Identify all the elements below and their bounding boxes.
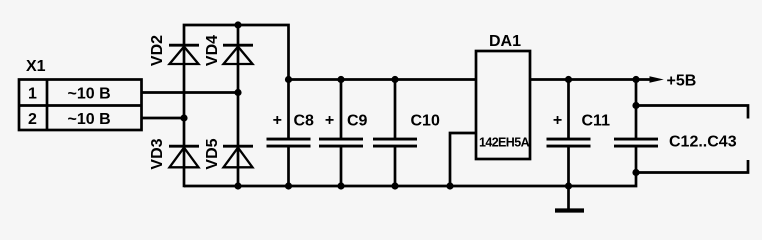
connector X1 box — [19, 80, 142, 131]
node dot main rail / C12 riser — [632, 76, 639, 83]
regulator DA1 box — [476, 51, 530, 159]
svg-text:C8: C8 — [294, 112, 315, 129]
svg-text:+: + — [325, 112, 334, 129]
wire: C12..C43 top branch with right tick — [636, 106, 748, 119]
node dot bottom rail / C9 — [337, 182, 344, 189]
wire: DA1 ground pin to bottom rail — [450, 133, 476, 186]
wire: X1 pin2 to bridge node — [142, 117, 185, 120]
capacitor C8 plates — [267, 138, 311, 148]
diode VD3 — [169, 146, 199, 167]
svg-text:X1: X1 — [26, 58, 46, 75]
svg-text:142ЕН5А: 142ЕН5А — [479, 136, 530, 150]
capacitor C10 plates — [373, 138, 417, 148]
svg-text:~10 В: ~10 В — [68, 111, 111, 128]
svg-text:C12..C43: C12..C43 — [669, 133, 737, 150]
node dot C12 bottom branch — [632, 169, 639, 176]
wire: main rail right (DA1 output to +5V arrow) — [530, 78, 652, 81]
capacitor C12 plates — [614, 138, 658, 148]
svg-text:~10 В: ~10 В — [68, 86, 111, 103]
capacitor C9 plates — [319, 138, 363, 148]
node dot main rail / C11 — [565, 76, 572, 83]
svg-text:DA1: DA1 — [489, 33, 521, 50]
svg-text:VD4: VD4 — [204, 35, 221, 66]
svg-text:+: + — [273, 112, 282, 129]
diode VD5 — [223, 146, 253, 167]
wire: rail2 (VD4/VD5) — [237, 25, 240, 186]
node dot bottom rail / C11 gnd — [565, 182, 572, 189]
ground symbol — [555, 186, 584, 211]
wire: bottom rail and C12 riser lower part — [184, 145, 636, 186]
wire: rail1 up, top rail, bend down into C8 — [184, 25, 289, 187]
wire: C11 leads — [567, 80, 570, 187]
svg-text:1: 1 — [28, 85, 37, 102]
node dot AC input rail1 — [180, 114, 187, 121]
svg-text:2: 2 — [28, 111, 37, 128]
svg-text:C10: C10 — [411, 112, 440, 129]
node dot main rail / C9 — [337, 76, 344, 83]
node dot bottom rail / C10 — [391, 182, 398, 189]
svg-text:VD2: VD2 — [149, 35, 166, 66]
node dot bottom rail / DA1 gnd — [446, 182, 453, 189]
svg-text:C9: C9 — [347, 112, 368, 129]
svg-text:+5В: +5В — [667, 73, 697, 90]
node dot top rail / VD4 — [234, 21, 241, 28]
node dot main rail / C8 — [285, 76, 292, 83]
diode VD4 — [223, 45, 253, 64]
node dot bottom rail / VD5 — [234, 182, 241, 189]
capacitor C11 plates — [547, 138, 591, 148]
node dot C12 top branch — [632, 102, 639, 109]
wire: C12 riser upper part — [635, 80, 638, 141]
+5V output arrow — [650, 76, 664, 82]
wire: C9 leads — [340, 80, 343, 187]
wire: C10 leads — [394, 80, 397, 187]
node dot bottom rail / C8 — [285, 182, 292, 189]
svg-text:VD5: VD5 — [204, 138, 221, 169]
svg-text:VD3: VD3 — [149, 138, 166, 169]
node dot main rail / C10 — [391, 76, 398, 83]
svg-text:C11: C11 — [582, 112, 611, 129]
wire: C12..C43 bottom branch with right tick — [636, 160, 748, 173]
wire: X1 pin1 to bridge node — [142, 91, 239, 94]
wire: main rail left (bridge to DA1 input) — [289, 78, 477, 81]
wire: C8 lower segment — [287, 145, 290, 186]
diode VD2 — [169, 45, 199, 64]
node dot AC input rail2 — [234, 89, 241, 96]
svg-text:+: + — [553, 112, 562, 129]
